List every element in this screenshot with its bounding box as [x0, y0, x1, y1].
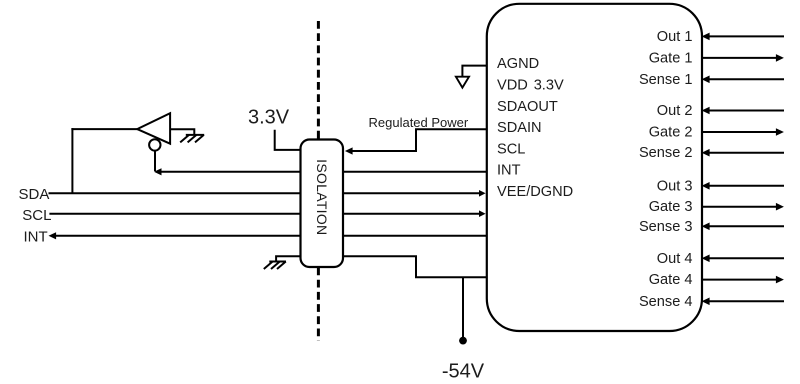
pin Gate 1 label: [649, 50, 693, 66]
wire Out 3: [702, 182, 784, 190]
svg-text:Gate 4: Gate 4: [649, 272, 693, 288]
wire inverter output: [71, 128, 138, 130]
wire Sense 1: [702, 76, 784, 84]
wire Gate 3: [702, 203, 784, 211]
chassis ground 2: [264, 262, 286, 270]
wire Sense 4: [702, 298, 784, 306]
svg-text:Regulated Power: Regulated Power: [369, 115, 469, 130]
inverter bubble: [149, 139, 160, 150]
pin VEE/DGND label: [497, 184, 573, 200]
wire INT-to-inverter (isolated INT line): [154, 168, 487, 175]
ground AGND (open arrow): [456, 77, 469, 88]
svg-text:AGND: AGND: [497, 56, 539, 72]
svg-text:Sense 2: Sense 2: [639, 145, 693, 161]
pin SDAIN label: [497, 120, 542, 136]
svg-text:Gate 1: Gate 1: [649, 50, 693, 66]
pin Sense 2 label: [639, 145, 693, 161]
pin Sense 3 label: [639, 219, 693, 235]
svg-text:SDAIN: SDAIN: [497, 120, 542, 136]
wire Out 2: [702, 107, 784, 115]
svg-text:Sense 1: Sense 1: [639, 72, 693, 88]
svg-text:Gate 2: Gate 2: [649, 125, 693, 141]
svg-text:-54V: -54V: [442, 361, 485, 383]
pin VDD 3.3V label: [497, 78, 564, 94]
svg-text:SDA: SDA: [19, 186, 50, 203]
IC U1 body: [487, 4, 702, 331]
label Regulated Power: [369, 115, 469, 130]
label 3.3V: [248, 107, 290, 129]
pin Gate 4 label: [649, 272, 693, 288]
svg-text:Gate 3: Gate 3: [649, 199, 693, 215]
wire Regulated Power: [345, 129, 487, 154]
svg-text:INT: INT: [497, 163, 521, 179]
wire AGND: [462, 66, 486, 77]
pin Gate 2 label: [649, 125, 693, 141]
pin Out 3 label: [657, 178, 693, 194]
svg-text:VEE/DGND: VEE/DGND: [497, 184, 573, 200]
net label INT: [24, 229, 48, 246]
pin Gate 3 label: [649, 199, 693, 215]
svg-text:ISOLATION: ISOLATION: [314, 159, 330, 235]
wire Gate 4: [702, 276, 784, 284]
pin SCL label: [497, 141, 525, 157]
svg-text:Out 3: Out 3: [657, 178, 693, 194]
wire Out 1: [702, 33, 784, 41]
wire isolation ground: [276, 256, 300, 261]
chassis ground 1: [180, 135, 204, 143]
wire inverter input: [170, 129, 194, 135]
svg-text:Sense 4: Sense 4: [639, 294, 693, 310]
pin Out 2 label: [657, 103, 693, 119]
pin AGND label: [497, 56, 539, 72]
svg-text:SDAOUT: SDAOUT: [497, 99, 558, 115]
pin Out 4 label: [657, 251, 693, 267]
pin SDAOUT label: [497, 99, 558, 115]
wire Out 4: [702, 255, 784, 263]
svg-text:Out 1: Out 1: [657, 29, 693, 45]
junction dot -54V: [459, 337, 467, 345]
svg-text:Sense 3: Sense 3: [639, 219, 693, 235]
svg-text:SCL: SCL: [497, 141, 525, 157]
wire SDA line: [49, 190, 486, 197]
wire Gate 1: [702, 54, 784, 62]
svg-text:Out 2: Out 2: [657, 103, 693, 119]
wire 3.3V supply: [275, 130, 301, 150]
wire SCL line: [49, 210, 485, 217]
wire -54V tap: [462, 277, 464, 340]
isolation barrier (dashed): [317, 21, 320, 341]
svg-text:Out 4: Out 4: [657, 251, 693, 267]
wire bubble stem: [154, 151, 156, 171]
svg-text:INT: INT: [24, 229, 48, 246]
wire INT line: [49, 232, 487, 239]
net label SDA: [19, 186, 50, 203]
wire Sense 2: [702, 149, 784, 157]
pin Out 1 label: [657, 29, 693, 45]
svg-text:3.3V: 3.3V: [248, 107, 290, 129]
svg-text:SCL: SCL: [22, 207, 51, 224]
net label SCL: [22, 207, 51, 224]
wire VEE supply: [343, 256, 487, 277]
pin INT label: [497, 163, 521, 179]
wire feedback to SDA: [71, 128, 73, 193]
wire Sense 3: [702, 223, 784, 231]
isolation block U2 ISOLATION: [301, 140, 344, 268]
label -54V: [442, 361, 485, 383]
pin Sense 4 label: [639, 294, 693, 310]
inverter U3 (buffer triangle): [137, 113, 170, 144]
pin Sense 1 label: [639, 72, 693, 88]
wire Gate 2: [702, 128, 784, 136]
